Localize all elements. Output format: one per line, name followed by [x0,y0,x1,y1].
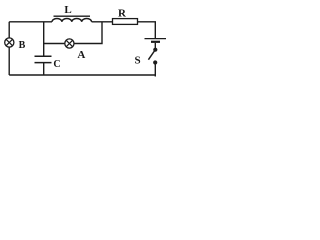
wire middle branch upper [43,22,45,56]
wire left edge lower [8,47,10,75]
svg-text:B: B [19,40,26,51]
wire lamp-A branch right [74,22,102,44]
inductor L coil [52,19,92,22]
switch upper contact [153,48,157,52]
wire battery to switch [154,43,156,48]
wire coil to node [92,21,113,23]
battery long plate [145,38,167,40]
lamp A [65,39,74,48]
wire left edge upper [8,22,10,38]
svg-text:L: L [64,4,71,16]
svg-text:R: R [118,7,127,19]
switch blade [148,51,154,60]
capacitor C bottom plate [35,62,52,64]
lamp B [5,38,14,47]
resistor R [113,19,138,25]
svg-text:A: A [77,49,85,61]
inductor L core bar [54,15,91,17]
svg-text:S: S [135,54,141,66]
battery short plate [151,41,160,43]
wire capacitor to bottom wire [43,63,45,75]
wire lamp-A branch left [44,43,65,45]
wire switch to bottom wire [154,64,156,77]
switch lower contact [153,60,157,64]
svg-text:C: C [53,59,60,70]
wire top-left segment [9,21,52,23]
capacitor C top plate [35,55,52,57]
bottom wire [9,74,155,76]
wire resistor to top-right corner [138,22,156,38]
